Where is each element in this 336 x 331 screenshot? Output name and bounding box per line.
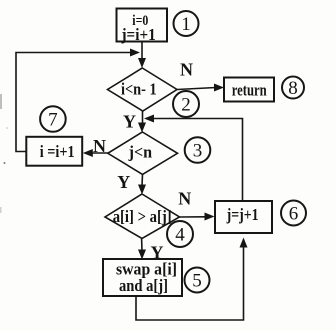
arrow into i=i+1 box (points left) [83,149,93,157]
wire diamond3 Y down to diamond4 [141,175,144,187]
wire j-loop feedback from j=j+1 box top [153,119,243,202]
svg-text:N: N [93,136,106,156]
svg-text:N: N [178,189,191,209]
svg-text:Y: Y [151,243,164,263]
wire diamond4 N to j=j+1 box [180,216,207,218]
svg-text:N: N [180,60,193,80]
step circle 5 [185,268,210,293]
wire diamond2 Y down to diamond3 [142,111,144,124]
svg-text:i<n- 1: i<n- 1 [121,80,157,99]
svg-text:8: 8 [288,78,298,99]
step circle 3 [185,137,211,163]
decision diamond 3 (j<n) [108,132,178,174]
wire diamond2 N to return box [177,88,216,90]
arrow into diamond3 top [138,123,146,133]
step circle 7 [40,106,66,132]
decision diamond 4 (a[i]>a[j]) [105,194,180,239]
svg-text:i =i+1: i =i+1 [40,142,75,161]
decision diamond 2 (i<n-1) [108,68,178,111]
svg-text:j=j+1: j=j+1 [226,205,259,224]
step circle 8 [282,77,304,99]
process box 6 (j=j+1) [215,201,272,233]
return box [224,78,274,102]
svg-text:a[i] > a[j]: a[i] > a[j] [113,207,172,226]
arrow into j=j+1 box (points right) [205,213,215,221]
svg-text:Y: Y [123,112,136,132]
svg-text:return: return [232,81,267,100]
svg-text:3: 3 [193,140,203,161]
wire bottom loop swap to j=j+1 bottom [136,245,244,320]
wire box1 to diamond2 [141,42,143,60]
svg-text:j<n: j<n [128,143,153,162]
wire big feedback i=i+1 to top [16,53,131,152]
arrow j-loop into wire (points left) [144,115,154,123]
svg-text:7: 7 [48,109,58,130]
svg-text:4: 4 [175,224,185,245]
svg-text:1: 1 [181,14,191,35]
step circle 2 [173,91,199,117]
svg-text:Y: Y [117,172,130,192]
scan specks [0,94,2,109]
wire diamond4 Y down to swap box [141,239,143,252]
wire diamond3 N to i=i+1 box [91,152,108,154]
process box 5 (swap) [103,259,182,296]
arrow into diamond2 top [138,58,146,68]
arrow into swap box top [138,250,146,260]
svg-text:and a[j]: and a[j] [119,276,168,295]
svg-text:6: 6 [289,203,299,224]
arrow into diamond4 top [138,185,146,195]
step circle 6 [281,201,306,226]
svg-text:2: 2 [181,94,191,115]
arrowheads [83,49,248,260]
process box 1 (i=0; j=i+1) [117,9,168,42]
arrow into return box [214,84,224,92]
arrow big feedback (points right) [130,49,140,57]
svg-text:5: 5 [192,270,202,291]
process box 7 (i=i+1) [26,137,82,166]
arrow bottom loop into j=j+1 bottom (points up) [240,238,248,248]
svg-text:j=i+1: j=i+1 [121,25,156,44]
step circle 1 [174,11,199,36]
step circle 4 [167,221,193,247]
